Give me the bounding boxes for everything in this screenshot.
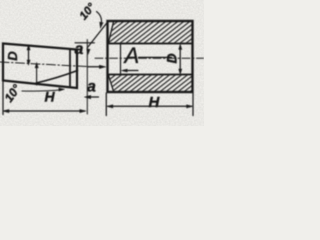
dimension H (left view): [3, 82, 86, 115]
slanted cone line extended (to sleeve corner): [87, 22, 108, 55]
bottom hatched wall: [109, 75, 192, 91]
right view centerline: [95, 57, 204, 59]
bore bottom line: [109, 74, 192, 76]
left view outline (tapered part): [3, 44, 77, 89]
left view inner vertical line: [69, 49, 71, 87]
cone entry slant bottom: [108, 75, 113, 92]
dimension H (right view): [106, 93, 193, 116]
angle tick line with up arrow (left view): [36, 67, 38, 86]
dimension D arrow (left view): [27, 45, 30, 65]
leader arrow for A: [122, 69, 139, 72]
horizontal extension of top edge: [75, 42, 95, 44]
left view taper diagonal: [36, 71, 78, 84]
solid centerline segment after A: [139, 56, 172, 58]
left view centerline: [0, 62, 88, 67]
leader from 10 deg to corner: [97, 12, 102, 25]
dimension a arrows: [84, 65, 106, 99]
angle leader arc to bottom edge (left view): [22, 90, 62, 91]
right view: sleeve section outline: [108, 21, 193, 92]
scan grain overlay: [0, 0, 204, 126]
extension line between views: [86, 40, 88, 115]
cone/bore junction line: [120, 44, 122, 74]
cone entry slant top: [108, 22, 113, 44]
bore top line: [109, 43, 192, 45]
bore diameter arrow: [179, 44, 182, 74]
top hatched wall: [109, 22, 192, 43]
